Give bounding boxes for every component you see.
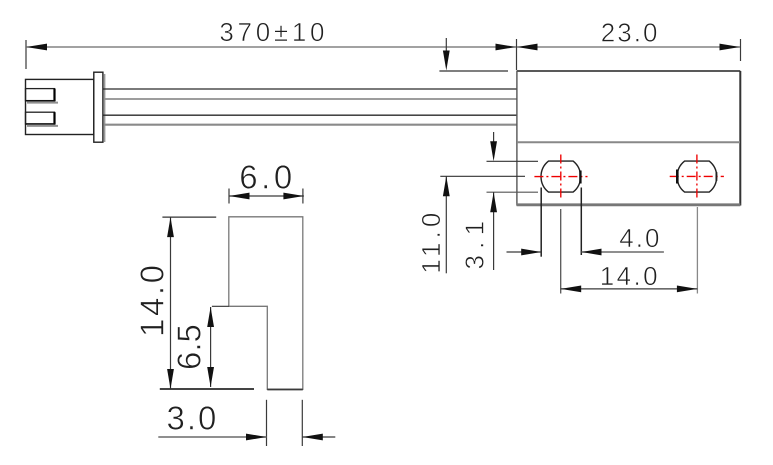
dimension 14.0 top extension (detail) xyxy=(162,216,216,218)
hole 1 right quadrant tick xyxy=(579,171,581,184)
hole 1 center extension down xyxy=(560,209,562,294)
dimension line top (370±10 / 23.0 shared) xyxy=(26,46,740,48)
dimension 6.0 tick left xyxy=(228,189,230,204)
dimension 4.0 left segment xyxy=(507,251,542,253)
hole 1 left edge extension down xyxy=(540,188,542,257)
dimension 6.0 line xyxy=(229,195,304,197)
extension line at sensor left edge xyxy=(516,39,518,70)
connector slot 1 xyxy=(26,89,55,101)
svg-text:3.0: 3.0 xyxy=(167,400,219,437)
connector body xyxy=(26,79,94,134)
arrow 23.0 left xyxy=(517,44,538,51)
hole center extension line left xyxy=(440,175,525,177)
connector flange xyxy=(94,72,103,142)
dimension 3.0 left segment xyxy=(158,436,266,438)
hole 1 centerline vertical xyxy=(560,155,562,201)
svg-text:11.0: 11.0 xyxy=(416,209,446,274)
connector slot 2 xyxy=(26,112,55,124)
drop line with down arrow to sensor top level xyxy=(445,38,447,62)
dimension 3.0 extension left xyxy=(266,400,268,446)
dimension 3.0 extension right xyxy=(301,400,303,446)
hole 2 centerline vertical xyxy=(696,155,698,201)
bottom extension line xyxy=(160,388,254,390)
svg-text:370±10: 370±10 xyxy=(219,17,328,47)
cable wire line 4 xyxy=(103,124,516,126)
dimension 14.0 line (detail) xyxy=(170,217,172,389)
svg-text:23.0: 23.0 xyxy=(601,18,660,48)
svg-text:4.0: 4.0 xyxy=(619,223,661,253)
sensor body outline xyxy=(517,70,741,72)
cable wire line 2 xyxy=(103,98,516,100)
hole 1 centerline horizontal xyxy=(534,176,587,178)
sensor divider line xyxy=(517,141,740,143)
cable wire line 1 xyxy=(103,88,516,90)
hole 1 right edge extension down xyxy=(580,188,582,256)
hole bottom extension line xyxy=(487,191,539,193)
dimension 3.1 lower line with up arrow xyxy=(493,192,495,270)
dimension 14.0 line (sensor) xyxy=(561,288,698,290)
arrow 23.0 right xyxy=(720,44,741,51)
svg-text:6.0: 6.0 xyxy=(239,159,295,196)
detail profile outline xyxy=(229,217,303,389)
hole 1 outline xyxy=(541,161,581,192)
extension line 23.0 right xyxy=(740,39,742,61)
dimension 4.0 right segment xyxy=(582,251,664,253)
svg-text:3.1: 3.1 xyxy=(460,215,490,270)
dimension 11.0 line xyxy=(445,176,447,273)
hole 2 centerline horizontal xyxy=(670,175,724,177)
arrow 370 left xyxy=(26,44,47,51)
svg-text:14.0: 14.0 xyxy=(134,262,171,337)
detail profile bottom edge emphasis xyxy=(267,389,303,391)
sensor top edge extended left xyxy=(439,70,508,72)
dimension 6.0 tick right xyxy=(302,189,304,204)
hole 2 right quadrant tick xyxy=(715,172,717,181)
cable wire line 3 xyxy=(103,114,516,116)
hole top extension line xyxy=(487,160,539,162)
dimension 3.1 upper line with down arrow xyxy=(493,132,495,153)
svg-text:6.5: 6.5 xyxy=(171,324,208,370)
dimension 370±10 extension line left xyxy=(25,40,27,69)
dimension 3.0 right segment xyxy=(302,436,335,438)
dimension 6.5 line xyxy=(210,307,212,387)
connector flange shadow xyxy=(104,74,106,142)
hole 2 left quadrant tick xyxy=(676,170,679,184)
svg-text:14.0: 14.0 xyxy=(600,261,660,291)
hole 2 outline xyxy=(677,161,717,192)
step extension line xyxy=(212,305,229,307)
arrow 370 right xyxy=(496,44,517,51)
hole 2 center extension down xyxy=(696,207,698,294)
